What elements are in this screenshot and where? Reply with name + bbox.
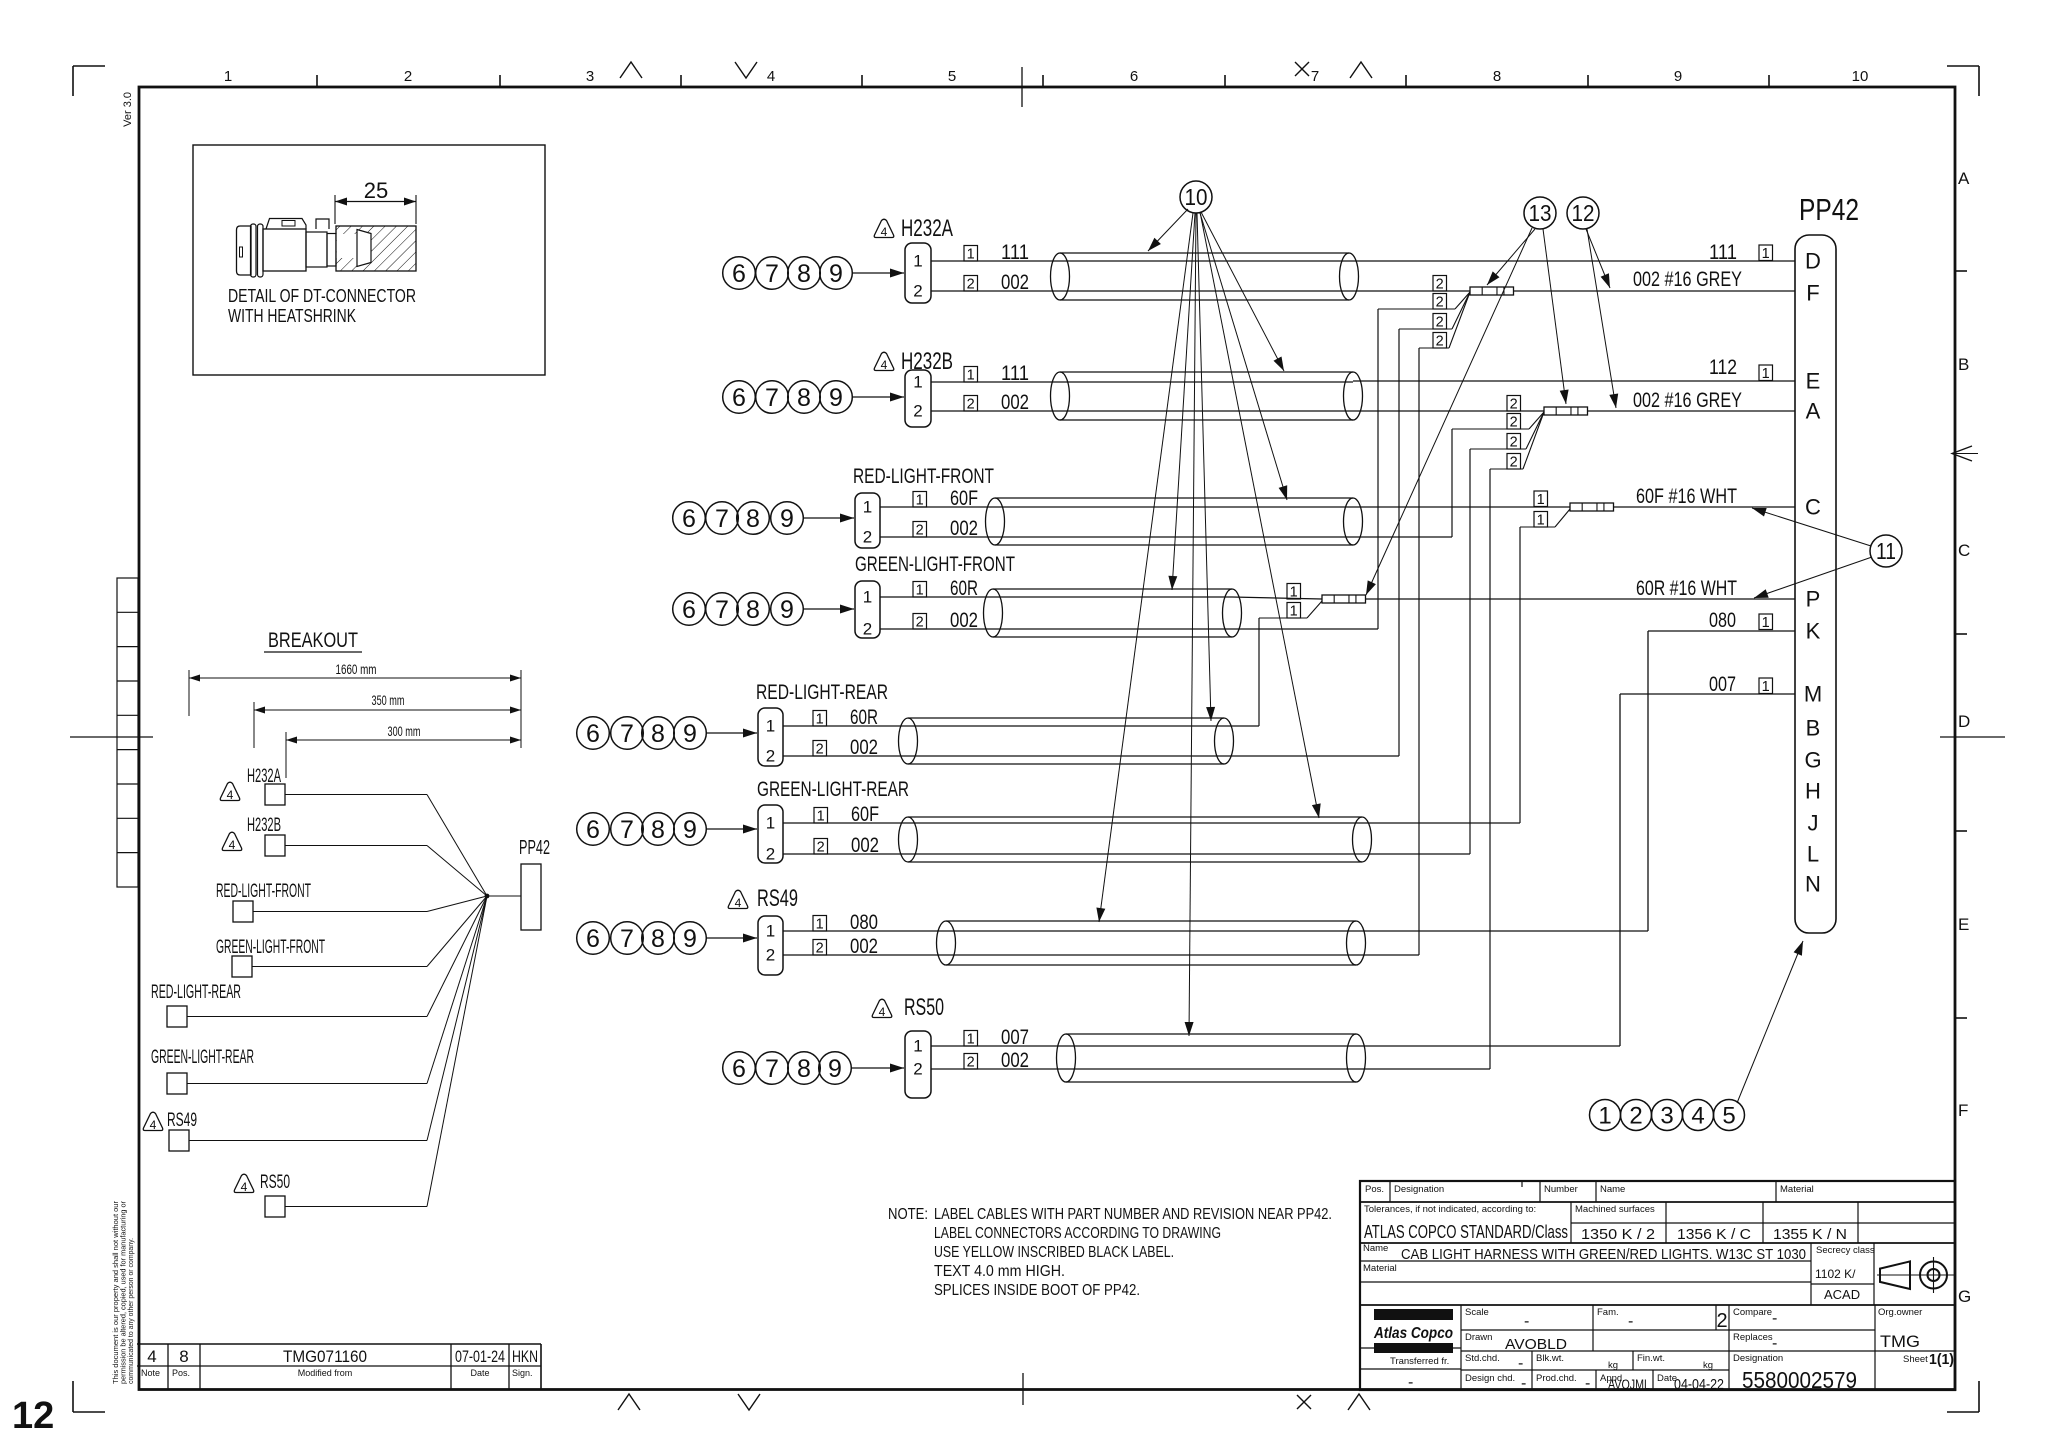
- svg-text:007: 007: [1709, 673, 1736, 696]
- svg-text:2: 2: [916, 615, 924, 631]
- svg-text:B: B: [1958, 355, 1969, 374]
- svg-text:7: 7: [620, 816, 634, 844]
- svg-text:002 #16 GREY: 002 #16 GREY: [1633, 389, 1742, 412]
- svg-text:G: G: [1958, 1287, 1971, 1306]
- connector RED-LIGHT-FRONT label: [853, 465, 994, 488]
- svg-text:Sheet: Sheet: [1903, 1354, 1928, 1365]
- arrow to connector GLR: [706, 825, 757, 834]
- breakout connector RS49: [143, 896, 487, 1151]
- wire GLR pin1 60F: [783, 803, 908, 826]
- wire RS50 pin2 002: [931, 1049, 1066, 1072]
- svg-text:1: 1: [766, 922, 775, 941]
- wire GLR pin2 002: [783, 834, 908, 857]
- svg-text:60F: 60F: [950, 487, 978, 510]
- svg-text:Fam.: Fam.: [1597, 1307, 1619, 1318]
- callout 10 arrows to cables: [1096, 209, 1320, 1036]
- wire RLR pin1 60R: [783, 706, 908, 729]
- svg-text:1: 1: [224, 68, 232, 85]
- callout circles 6 7 8 9 (GLF): [673, 593, 804, 626]
- svg-text:4: 4: [735, 896, 742, 910]
- svg-text:Ver 3.0: Ver 3.0: [122, 92, 134, 127]
- svg-text:RS50: RS50: [260, 1172, 290, 1193]
- svg-text:9: 9: [829, 260, 843, 288]
- svg-text:1(1): 1(1): [1929, 1352, 1954, 1368]
- svg-text:1: 1: [913, 1037, 922, 1056]
- svg-text:9: 9: [828, 1055, 842, 1083]
- cable sheath RLR: [899, 718, 1234, 764]
- arrow to connector H232B: [852, 393, 904, 402]
- svg-text:WITH HEATSHRINK: WITH HEATSHRINK: [228, 306, 356, 326]
- svg-text:1: 1: [817, 809, 825, 825]
- svg-text:7: 7: [765, 260, 779, 288]
- callout circle 11: [1870, 535, 1902, 567]
- svg-text:SPLICES INSIDE BOOT OF PP42.: SPLICES INSIDE BOOT OF PP42.: [934, 1282, 1140, 1299]
- svg-text:9: 9: [829, 384, 843, 412]
- svg-text:002: 002: [1001, 1049, 1029, 1072]
- svg-text:C: C: [1958, 541, 1970, 560]
- svg-text:2: 2: [967, 1055, 975, 1071]
- svg-text:1: 1: [1762, 246, 1770, 262]
- svg-text:4: 4: [881, 358, 888, 372]
- svg-text:6: 6: [732, 260, 746, 288]
- svg-text:RS49: RS49: [167, 1110, 197, 1131]
- corner mark bottom-right: [1947, 1381, 1979, 1412]
- breakout connector GREEN-LIGHT-REAR: [151, 896, 487, 1094]
- svg-text:LABEL CABLES WITH PART NUMBER: LABEL CABLES WITH PART NUMBER AND REVISI…: [934, 1206, 1332, 1223]
- svg-text:080: 080: [1709, 609, 1736, 632]
- svg-text:Sign.: Sign.: [512, 1368, 533, 1378]
- breakout connector H232A: [220, 766, 487, 896]
- wire H232B pin2 002: [931, 391, 1060, 414]
- svg-text:7: 7: [765, 1055, 779, 1083]
- note text block: [888, 1206, 1332, 1299]
- svg-text:11: 11: [1876, 538, 1896, 564]
- svg-text:60R: 60R: [950, 577, 978, 600]
- svg-text:2: 2: [1510, 435, 1518, 451]
- svg-text:D: D: [1805, 249, 1821, 274]
- svg-text:1: 1: [1290, 585, 1298, 601]
- connector RED-LIGHT-REAR label: [756, 681, 888, 704]
- svg-text:H: H: [1805, 779, 1821, 804]
- svg-text:L: L: [1807, 842, 1819, 867]
- svg-text:2: 2: [816, 941, 824, 957]
- wire RLF pin2 002: [880, 517, 995, 540]
- callout 12 arrows to grey wires: [1586, 229, 1618, 408]
- wire GLF pin1 60R: [880, 577, 993, 600]
- svg-text:1: 1: [1598, 1102, 1611, 1129]
- svg-text:6: 6: [586, 816, 600, 844]
- svg-text:10: 10: [1185, 184, 1208, 210]
- breakout connector RED-LIGHT-REAR: [151, 896, 487, 1027]
- svg-text:RED-LIGHT-FRONT: RED-LIGHT-FRONT: [216, 881, 311, 902]
- svg-text:M: M: [1804, 682, 1822, 707]
- svg-text:2: 2: [1436, 277, 1444, 293]
- svg-text:E: E: [1958, 915, 1969, 934]
- svg-text:RED-LIGHT-FRONT: RED-LIGHT-FRONT: [853, 465, 994, 488]
- svg-text:8: 8: [746, 596, 760, 624]
- arrow to connector H232A: [852, 269, 904, 278]
- svg-text:07-01-24: 07-01-24: [455, 1347, 505, 1366]
- breakout PP42 connector: [485, 837, 550, 930]
- svg-text:NOTE:: NOTE:: [888, 1206, 928, 1223]
- svg-text:1: 1: [916, 493, 924, 509]
- wire 60F #16 WHT to PP42 pin C: [1614, 485, 1795, 508]
- svg-text:4: 4: [229, 838, 236, 852]
- transferred fr cell: [1390, 1356, 1449, 1391]
- svg-text:Transferred fr.: Transferred fr.: [1390, 1356, 1449, 1367]
- svg-text:Machined surfaces: Machined surfaces: [1575, 1204, 1655, 1215]
- cable sheath H232B: [1051, 372, 1363, 420]
- svg-text:H232B: H232B: [247, 815, 281, 836]
- svg-text:Prod.chd.: Prod.chd.: [1536, 1373, 1577, 1384]
- svg-text:6: 6: [586, 925, 600, 953]
- svg-text:Drawn: Drawn: [1465, 1332, 1492, 1343]
- dimension 300 mm: [286, 670, 521, 778]
- callout circle 13: [1524, 197, 1556, 229]
- designation number 5580002579: [1742, 1367, 1857, 1393]
- svg-text:1: 1: [913, 373, 922, 392]
- svg-text:1: 1: [967, 368, 975, 384]
- projection symbol: [1877, 1257, 1955, 1293]
- svg-text:Pos.: Pos.: [172, 1368, 190, 1378]
- svg-text:2: 2: [1436, 295, 1444, 311]
- svg-text:kg: kg: [1703, 1360, 1713, 1371]
- svg-text:Date: Date: [470, 1368, 489, 1378]
- svg-text:2: 2: [1510, 455, 1518, 471]
- svg-text:H232A: H232A: [901, 215, 953, 242]
- top ruler ticks and numbers: [224, 67, 1869, 107]
- svg-text:1: 1: [816, 917, 824, 933]
- svg-text:BREAKOUT: BREAKOUT: [268, 629, 358, 652]
- svg-text:002: 002: [1001, 391, 1029, 414]
- wire 60R to splice S4: [1232, 597, 1322, 599]
- svg-text:8: 8: [179, 1347, 188, 1366]
- svg-text:1: 1: [913, 252, 922, 271]
- svg-text:Pos.: Pos.: [1365, 1184, 1384, 1195]
- callout circles 6 7 8 9 (H232B): [723, 381, 853, 414]
- svg-text:007: 007: [1001, 1026, 1029, 1049]
- svg-text:Scale: Scale: [1465, 1307, 1489, 1318]
- side confidentiality note: [111, 1201, 135, 1384]
- connector RS50 label: [872, 994, 944, 1021]
- svg-text:4: 4: [879, 1005, 886, 1019]
- Atlas Copco logo: [1373, 1309, 1453, 1353]
- svg-text:8: 8: [651, 925, 665, 953]
- svg-text:1350 K / 2: 1350 K / 2: [1581, 1226, 1655, 1243]
- splice S3 stub wires with 1 labels: [1520, 491, 1570, 529]
- svg-text:AVOJML: AVOJML: [1608, 1377, 1650, 1392]
- svg-text:PP42: PP42: [519, 837, 550, 859]
- svg-text:4: 4: [1691, 1102, 1704, 1129]
- svg-text:1: 1: [967, 1032, 975, 1048]
- svg-text:RS50: RS50: [904, 994, 944, 1021]
- corner mark top-right: [1947, 66, 1979, 96]
- svg-text:A: A: [1958, 169, 1970, 188]
- svg-text:E: E: [1806, 369, 1821, 394]
- svg-text:111: 111: [1001, 362, 1029, 385]
- svg-text:6: 6: [1130, 68, 1138, 85]
- drawn replaces cells: [1465, 1332, 1920, 1353]
- dimension 350 mm: [254, 693, 521, 748]
- svg-text:1660 mm: 1660 mm: [336, 662, 377, 677]
- wire GLF pin2 002: [880, 609, 993, 632]
- splice S2 stub wires with 2 labels: [1452, 396, 1544, 471]
- wire RLF pin1 60F: [880, 487, 995, 510]
- svg-text:2: 2: [1510, 415, 1518, 431]
- title block frame: [1360, 1181, 1955, 1390]
- top registration marks: [620, 62, 1372, 78]
- riser 60R red-light-rear: [1224, 618, 1259, 726]
- svg-text:9: 9: [1674, 68, 1682, 85]
- wire 007 to PP42 pin M: [1356, 673, 1795, 1046]
- svg-text:9: 9: [780, 596, 794, 624]
- arrow to connector RLR: [706, 729, 757, 738]
- svg-text:K: K: [1806, 619, 1821, 644]
- wire 002 H232A to splice S1: [1349, 290, 1470, 292]
- connector RS49 label: [728, 885, 798, 912]
- svg-text:60F #16 WHT: 60F #16 WHT: [1636, 485, 1737, 508]
- svg-text:communicated to any other pers: communicated to any other person or comp…: [126, 1238, 135, 1384]
- riser 002 red-light-rear: [1224, 329, 1399, 756]
- svg-text:Name: Name: [1600, 1184, 1625, 1195]
- stdchd blkwt finwt cells: [1465, 1352, 1954, 1372]
- svg-text:Material: Material: [1780, 1184, 1814, 1195]
- heatshrink hatched section: [237, 219, 337, 278]
- splice S1 stub wires with 2 labels: [1378, 276, 1470, 350]
- svg-text:Secrecy class: Secrecy class: [1816, 1245, 1875, 1256]
- svg-text:F: F: [1806, 281, 1819, 306]
- splice S3: [1570, 503, 1614, 511]
- svg-text:Name: Name: [1363, 1243, 1388, 1254]
- callout circles 6 7 8 9 (GLR): [577, 813, 707, 846]
- corner mark top-left: [73, 66, 105, 96]
- svg-text:3: 3: [1660, 1102, 1673, 1129]
- svg-text:1: 1: [863, 588, 872, 607]
- corner mark bottom-left: [73, 1381, 105, 1412]
- svg-text:10: 10: [1852, 68, 1869, 85]
- svg-text:1: 1: [816, 712, 824, 728]
- svg-text:6: 6: [732, 1055, 746, 1083]
- riser 002 RS49: [1356, 348, 1419, 955]
- cable sheath RS50: [1057, 1034, 1366, 1082]
- svg-text:-: -: [1772, 1335, 1777, 1352]
- cable sheath RS49: [937, 921, 1366, 965]
- arrow from callout 5 to PP42: [1737, 941, 1803, 1103]
- wire 080 to PP42 pin K: [1356, 609, 1795, 931]
- svg-text:6: 6: [682, 596, 696, 624]
- svg-text:111: 111: [1001, 241, 1029, 264]
- svg-text:ACAD: ACAD: [1824, 1287, 1860, 1302]
- svg-text:8: 8: [797, 384, 811, 412]
- svg-text:1: 1: [916, 583, 924, 599]
- wire 112 to PP42 pin E: [1353, 356, 1795, 382]
- svg-text:-: -: [1628, 1313, 1633, 1330]
- riser 002 green-light-rear: [1362, 449, 1470, 854]
- svg-text:4: 4: [767, 68, 775, 85]
- svg-text:2: 2: [1436, 315, 1444, 331]
- breakout connector RED-LIGHT-FRONT: [216, 881, 487, 922]
- svg-text:1: 1: [863, 498, 872, 517]
- detail caption: [228, 286, 416, 326]
- svg-text:9: 9: [780, 505, 794, 533]
- svg-text:8: 8: [651, 720, 665, 748]
- svg-text:60R: 60R: [850, 706, 878, 729]
- cable sheath GLF: [984, 589, 1242, 637]
- svg-text:2: 2: [1436, 334, 1444, 350]
- svg-text:GREEN-LIGHT-REAR: GREEN-LIGHT-REAR: [151, 1047, 254, 1068]
- svg-text:6: 6: [586, 720, 600, 748]
- svg-text:1: 1: [1290, 604, 1298, 620]
- wire 60F to splice S3: [1353, 506, 1570, 508]
- riser 002 green-light-front: [1232, 309, 1378, 629]
- svg-text:Blk.wt.: Blk.wt.: [1536, 1353, 1564, 1364]
- callout 13 arrows to splices: [1366, 228, 1569, 595]
- arrow to connector RLF: [803, 514, 854, 523]
- svg-text:4: 4: [241, 1180, 248, 1194]
- splice S2: [1544, 407, 1588, 415]
- svg-text:Design chd.: Design chd.: [1465, 1373, 1515, 1384]
- callout circles 1-5: [1590, 1100, 1745, 1131]
- svg-text:2: 2: [1510, 397, 1518, 413]
- detail box frame: [193, 145, 545, 375]
- svg-text:-: -: [1585, 1375, 1590, 1392]
- svg-text:P: P: [1806, 587, 1821, 612]
- wire RS50 pin1 007: [931, 1026, 1066, 1049]
- svg-text:TMG071160: TMG071160: [283, 1347, 367, 1366]
- svg-text:Tolerances, if not indicated,: Tolerances, if not indicated, according …: [1364, 1204, 1536, 1215]
- svg-text:2: 2: [913, 402, 922, 421]
- dimension 1660 mm: [189, 662, 521, 716]
- svg-text:Org.owner: Org.owner: [1878, 1307, 1922, 1318]
- svg-text:Modified from: Modified from: [298, 1368, 353, 1378]
- svg-text:2: 2: [766, 845, 775, 864]
- svg-text:2: 2: [404, 68, 412, 85]
- left border fold boxes: [70, 578, 153, 887]
- svg-text:2: 2: [766, 747, 775, 766]
- design prod appd date cells: [1465, 1373, 1724, 1393]
- svg-text:5: 5: [948, 68, 956, 85]
- arrow to connector RS50: [851, 1064, 904, 1073]
- svg-text:GREEN-LIGHT-FRONT: GREEN-LIGHT-FRONT: [216, 937, 325, 958]
- svg-text:F: F: [1958, 1101, 1968, 1120]
- svg-text:RED-LIGHT-REAR: RED-LIGHT-REAR: [756, 681, 888, 704]
- splice S4: [1322, 595, 1366, 603]
- svg-text:9: 9: [683, 925, 697, 953]
- connector H232B label: [874, 348, 953, 375]
- callout circles 6 7 8 9 (RLR): [577, 717, 707, 750]
- callout circle 12: [1567, 197, 1599, 229]
- svg-text:1: 1: [1537, 513, 1545, 529]
- svg-text:HKN: HKN: [512, 1347, 538, 1366]
- connector RLF body: [855, 493, 880, 548]
- wire 111 to PP42 pin D: [1349, 241, 1795, 264]
- Ver 3.0 text: [122, 92, 134, 127]
- bottom registration marks: [618, 1373, 1370, 1410]
- svg-text:5: 5: [1722, 1102, 1735, 1129]
- svg-text:5580002579: 5580002579: [1742, 1367, 1857, 1393]
- svg-text:1: 1: [1762, 679, 1770, 695]
- riser 002 red-light-front: [1353, 429, 1452, 537]
- arrow to connector GLF: [803, 605, 854, 614]
- svg-text:TEXT 4.0 mm HIGH.: TEXT 4.0 mm HIGH.: [934, 1263, 1065, 1280]
- title block header labels: [1365, 1184, 1814, 1195]
- drawing frame border: [139, 87, 1955, 1390]
- svg-text:2: 2: [816, 742, 824, 758]
- svg-text:1: 1: [766, 717, 775, 736]
- svg-text:2: 2: [967, 397, 975, 413]
- svg-text:N: N: [1805, 872, 1821, 897]
- svg-text:002: 002: [850, 935, 878, 958]
- svg-text:04-04-22: 04-04-22: [1674, 1376, 1724, 1393]
- callout circles 6 7 8 9 (RS50): [723, 1052, 852, 1085]
- svg-text:TMG: TMG: [1880, 1332, 1920, 1351]
- svg-text:1102 K/: 1102 K/: [1815, 1267, 1856, 1281]
- svg-text:350 mm: 350 mm: [372, 693, 405, 708]
- svg-text:CAB LIGHT HARNESS WITH GREEN/R: CAB LIGHT HARNESS WITH GREEN/RED LIGHTS.…: [1401, 1246, 1806, 1263]
- svg-text:1356 K / C: 1356 K / C: [1677, 1226, 1751, 1243]
- svg-text:1: 1: [766, 814, 775, 833]
- riser 60F green-light-rear: [1362, 527, 1520, 823]
- connector H232A label: [874, 215, 953, 242]
- svg-text:3: 3: [586, 68, 594, 85]
- tolerances cell: [1364, 1204, 1568, 1242]
- svg-text:ATLAS COPCO STANDARD/Class: ATLAS COPCO STANDARD/Class: [1364, 1222, 1568, 1242]
- svg-text:7: 7: [715, 505, 729, 533]
- BREAKOUT title: [264, 629, 362, 652]
- svg-text:2: 2: [913, 282, 922, 301]
- callout circles 6 7 8 9 (H232A): [723, 257, 853, 290]
- cable sheath H232A: [1051, 253, 1359, 300]
- wire 002 H232B to splice S2: [1353, 410, 1544, 412]
- splice S4 stub wires with 1 labels: [1259, 584, 1322, 620]
- svg-text:A: A: [1806, 399, 1821, 424]
- svg-text:8: 8: [797, 1055, 811, 1083]
- svg-text:PP42: PP42: [1799, 192, 1859, 227]
- connector GLR body: [758, 805, 783, 864]
- svg-text:080: 080: [850, 911, 878, 934]
- svg-text:13: 13: [1529, 200, 1552, 226]
- wire H232A pin1 111: [931, 241, 1060, 264]
- svg-text:AVOBLD: AVOBLD: [1505, 1336, 1567, 1353]
- svg-text:C: C: [1805, 495, 1821, 520]
- svg-text:Fin.wt.: Fin.wt.: [1637, 1353, 1665, 1364]
- splice S1: [1470, 287, 1514, 295]
- svg-text:7: 7: [765, 384, 779, 412]
- right border ticks and zone letters: [1940, 169, 2005, 1306]
- svg-text:60F: 60F: [851, 803, 879, 826]
- connector GLF body: [855, 581, 880, 639]
- connector GREEN-LIGHT-FRONT label: [855, 553, 1015, 576]
- svg-text:4: 4: [147, 1347, 156, 1366]
- svg-text:-: -: [1521, 1375, 1526, 1392]
- wire RS49 pin1 080: [783, 911, 946, 934]
- breakout connector H232B: [222, 815, 487, 896]
- svg-text:25: 25: [364, 178, 388, 203]
- svg-text:7: 7: [620, 720, 634, 748]
- svg-text:002: 002: [851, 834, 879, 857]
- svg-text:2: 2: [916, 523, 924, 539]
- svg-text:002: 002: [950, 609, 978, 632]
- svg-text:Designation: Designation: [1733, 1353, 1783, 1364]
- svg-text:1: 1: [1762, 366, 1770, 382]
- svg-text:Material: Material: [1363, 1263, 1397, 1274]
- detail dimension 25: [335, 178, 416, 224]
- svg-text:-: -: [1518, 1355, 1523, 1372]
- connector H232B body: [905, 370, 931, 427]
- svg-text:002 #16 GREY: 002 #16 GREY: [1633, 268, 1742, 291]
- cable sheath RLF: [986, 498, 1363, 545]
- svg-text:6: 6: [732, 384, 746, 412]
